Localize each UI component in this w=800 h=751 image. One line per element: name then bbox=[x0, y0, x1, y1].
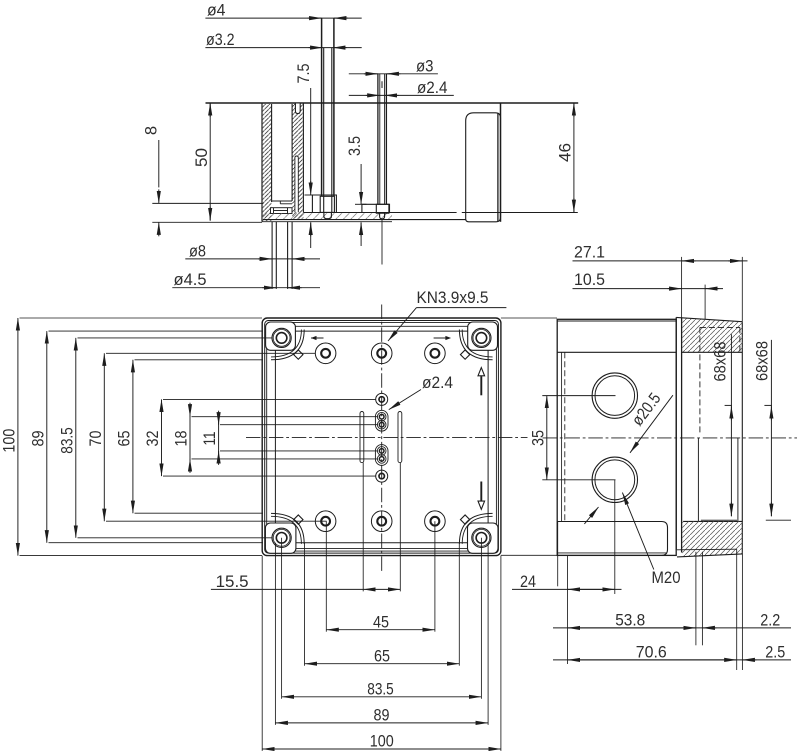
corner pocket BL bbox=[265, 523, 296, 553]
screw S2 shank inner bbox=[379, 74, 381, 205]
cover in section bbox=[466, 113, 501, 222]
dim 100 left bbox=[17, 318, 19, 556]
svg-text:53.8: 53.8 bbox=[615, 611, 645, 629]
pocket BL bulge bbox=[271, 513, 304, 544]
nut pocket bottom left bbox=[271, 208, 293, 214]
cover bottom wall top line bbox=[683, 520, 742, 522]
dim 68x68 second bbox=[764, 340, 791, 520]
base plate hatch bbox=[262, 213, 392, 219]
dim 83.5 bottom bbox=[282, 696, 482, 698]
dim 24 bbox=[512, 588, 622, 590]
cover right edge bbox=[741, 322, 743, 554]
svg-text:15.5: 15.5 bbox=[216, 573, 249, 591]
arrow glyph up right edge bbox=[478, 368, 485, 396]
svg-text:10.5: 10.5 bbox=[574, 271, 605, 289]
cover right inner line bbox=[497, 113, 499, 222]
corner screw TL bbox=[272, 328, 291, 347]
dim 70 left bbox=[103, 353, 105, 521]
dim 65 bottom bbox=[305, 663, 460, 665]
screw S2 center tick bbox=[381, 81, 383, 88]
top row hole A2 bbox=[371, 343, 392, 364]
lip outline inset2 top segment bbox=[272, 325, 492, 327]
dim 10.5 bbox=[573, 288, 724, 290]
dim line d3 bbox=[349, 73, 438, 75]
hidden wall line left dashed bbox=[564, 352, 566, 521]
top row hole A1 bbox=[315, 343, 336, 364]
svg-text:89: 89 bbox=[29, 431, 47, 447]
mold mark diamond TR bbox=[460, 350, 469, 359]
bottom band bbox=[557, 522, 668, 556]
lip outline inset1 bbox=[267, 322, 497, 551]
svg-text:ø2.4: ø2.4 bbox=[422, 374, 453, 392]
svg-text:7.5: 7.5 bbox=[295, 64, 313, 84]
svg-text:45: 45 bbox=[373, 613, 389, 631]
svg-text:70: 70 bbox=[87, 431, 105, 447]
dim 3.5 vertical bbox=[355, 164, 367, 246]
svg-text:ø2.4: ø2.4 bbox=[417, 79, 448, 97]
box body outline bbox=[557, 319, 676, 555]
top row hole A3 bbox=[425, 343, 446, 364]
svg-text:11: 11 bbox=[201, 432, 219, 446]
entry hole bottom inner bbox=[595, 460, 635, 500]
mold mark diamond BR bbox=[460, 515, 469, 524]
boss B2 under screw S2 bbox=[362, 204, 390, 212]
arrow glyph right on top edge bbox=[434, 336, 452, 340]
entry hole top outer bbox=[592, 373, 637, 418]
arrow glyph down right edge bbox=[478, 482, 485, 510]
dim 18 left bbox=[189, 403, 191, 473]
entry hole bottom outer bbox=[592, 457, 637, 502]
centerline horizontal bbox=[246, 436, 528, 438]
corner screw BL bbox=[272, 528, 291, 547]
svg-text:100: 100 bbox=[1, 429, 19, 453]
svg-text:2.5: 2.5 bbox=[765, 643, 785, 661]
cover top wall hatch bbox=[682, 318, 742, 352]
cover top wall bottom line bbox=[682, 351, 743, 353]
corner pocket BR bbox=[468, 523, 499, 553]
screw S1 head bbox=[320, 196, 334, 212]
dim 50 vertical bbox=[209, 103, 211, 221]
dim line d3.2 bbox=[205, 47, 361, 49]
dim 46 vertical bbox=[573, 103, 575, 212]
label M20 with leader bbox=[622, 493, 653, 570]
pocket TL bulge bbox=[271, 330, 304, 360]
ext verticals bottom right bbox=[558, 480, 743, 670]
hidden opening dashed top bbox=[700, 326, 740, 328]
svg-text:83.5: 83.5 bbox=[58, 427, 76, 454]
inner wall line left bbox=[561, 352, 563, 521]
bottom row hole B2 bbox=[371, 511, 392, 532]
label d20.5 with leader bbox=[630, 395, 673, 453]
mold mark diamond BL bbox=[294, 515, 303, 524]
bottom row hole B1 bbox=[315, 511, 336, 532]
dim line d2.4 bbox=[349, 94, 454, 96]
lip outline inset2 bottom segment bbox=[272, 548, 492, 550]
SIDE-VIEW bbox=[501, 244, 797, 671]
cover left wall thick pair bbox=[675, 317, 677, 550]
projection line top between views bbox=[501, 317, 557, 319]
svg-text:ø3: ø3 bbox=[416, 57, 434, 75]
svg-text:M20: M20 bbox=[652, 569, 681, 587]
SECTION-VIEW bbox=[143, 2, 579, 290]
screw S2 axis extension bbox=[381, 219, 383, 265]
svg-text:24: 24 bbox=[520, 573, 536, 591]
left wall outer line bbox=[261, 103, 263, 222]
dim 89 bottom bbox=[275, 722, 488, 724]
opening wall solid right below centerline bbox=[737, 438, 739, 522]
corner pocket TR bbox=[468, 322, 498, 350]
hidden opening dashed right bbox=[739, 327, 741, 351]
inner wall lines bbox=[291, 104, 293, 201]
base plate bottom lines bbox=[263, 219, 466, 221]
dim line d4.5 bbox=[172, 287, 320, 289]
svg-text:68x68: 68x68 bbox=[753, 341, 771, 381]
dim 65 left bbox=[132, 360, 134, 513]
hidden opening dashed left bbox=[699, 327, 701, 434]
ext lines left chain bbox=[20, 318, 378, 556]
screw channel slot in wall bbox=[295, 156, 298, 212]
leader to entry edge bbox=[584, 507, 598, 524]
twin hole pocket upper bbox=[375, 410, 388, 431]
svg-text:70.6: 70.6 bbox=[636, 643, 667, 661]
dim 11 left bbox=[218, 411, 220, 465]
dim 100 bottom bbox=[262, 748, 501, 750]
mounting boss tube below plate bbox=[271, 222, 273, 289]
svg-text:ø8: ø8 bbox=[189, 242, 206, 260]
bottom row hole B3 bbox=[425, 511, 446, 532]
dim 7.5 vertical bbox=[305, 88, 319, 248]
screw S2 tip bbox=[380, 213, 385, 219]
svg-text:8: 8 bbox=[143, 126, 161, 135]
twin holes upper bbox=[377, 412, 386, 421]
svg-text:ø4: ø4 bbox=[207, 2, 226, 20]
svg-text:18: 18 bbox=[173, 431, 191, 447]
base plate top line bbox=[303, 212, 456, 214]
pocket BR bulge bbox=[459, 513, 492, 544]
svg-text:68x68: 68x68 bbox=[711, 342, 729, 382]
opening wall solid left below centerline bbox=[697, 438, 699, 522]
arrow glyph left on top edge bbox=[311, 336, 324, 340]
slot right bbox=[398, 412, 402, 463]
svg-text:3.5: 3.5 bbox=[346, 136, 364, 156]
entry hole top inner bbox=[595, 376, 635, 416]
groove floor bbox=[272, 200, 292, 202]
dim 8 vertical bbox=[152, 140, 263, 236]
dim 53.8 / 2.2 bbox=[553, 627, 791, 629]
twin holes lower bbox=[377, 447, 386, 456]
dim line d4 bbox=[205, 17, 361, 19]
svg-text:KN3.9x9.5: KN3.9x9.5 bbox=[417, 289, 489, 307]
ext verticals top right bbox=[682, 257, 743, 322]
svg-text:100: 100 bbox=[370, 733, 394, 751]
svg-text:65: 65 bbox=[374, 647, 390, 665]
svg-text:ø3.2: ø3.2 bbox=[206, 31, 235, 49]
top band line bbox=[557, 351, 676, 353]
left wall inner line bbox=[271, 104, 273, 202]
dim 89 left bbox=[46, 331, 48, 543]
box outer outline bbox=[262, 318, 501, 556]
slot left bbox=[360, 412, 364, 463]
corner screw TR bbox=[472, 328, 491, 347]
bottom band inner line bbox=[557, 552, 667, 554]
corner screw BR bbox=[472, 528, 491, 547]
ext lines bottom chain bbox=[262, 463, 501, 751]
cover sloped top edge bbox=[676, 317, 742, 321]
dim 83.5 left bbox=[75, 338, 77, 538]
center hole C1 bbox=[376, 393, 388, 405]
corner pocket TL bbox=[266, 322, 296, 350]
cover bottom sliver lines bbox=[677, 548, 737, 551]
svg-text:35: 35 bbox=[529, 430, 547, 446]
cover face rect 89 bbox=[275, 331, 488, 543]
dim 35 bbox=[542, 396, 615, 480]
twin hole pocket lower bbox=[375, 445, 388, 466]
dim 68x68 first bbox=[701, 334, 737, 520]
FRONT-VIEW bbox=[1, 289, 528, 751]
box right end line bbox=[500, 103, 502, 222]
cover bottom wall hatch bbox=[682, 521, 742, 556]
screw S2 shank outer bbox=[377, 74, 379, 205]
svg-text:50: 50 bbox=[193, 148, 211, 167]
svg-text:2.2: 2.2 bbox=[760, 611, 780, 629]
center hole C2 bbox=[376, 470, 388, 482]
dim 27.1 bbox=[573, 260, 748, 262]
svg-text:65: 65 bbox=[116, 431, 134, 447]
svg-text:27.1: 27.1 bbox=[574, 244, 605, 262]
svg-text:46: 46 bbox=[557, 143, 575, 162]
screw S1 shank inner bbox=[323, 48, 325, 213]
centerline horizontal side bbox=[543, 437, 798, 439]
projection line bottom between views bbox=[501, 554, 557, 556]
box outer second outline bbox=[265, 321, 499, 554]
dim 45 bottom bbox=[326, 629, 435, 631]
boss B1 under screw S1 bbox=[312, 195, 336, 212]
screw S2 head bbox=[376, 204, 389, 213]
screw S1 shank outer bbox=[321, 18, 323, 196]
pocket TR bulge bbox=[459, 330, 492, 360]
dim 15.5 bottom bbox=[211, 588, 363, 590]
centerline vertical bbox=[381, 305, 383, 572]
mold mark diamond TL bbox=[294, 350, 303, 359]
inner wall hatch bbox=[292, 104, 303, 219]
svg-text:89: 89 bbox=[374, 707, 390, 725]
cover seam line bbox=[557, 320, 676, 322]
svg-text:ø4.5: ø4.5 bbox=[174, 271, 207, 289]
screw S1 tip bbox=[324, 212, 332, 218]
left wall hatch bbox=[263, 104, 272, 221]
svg-text:83.5: 83.5 bbox=[367, 680, 394, 698]
dim 32 left bbox=[161, 399, 163, 476]
svg-text:32: 32 bbox=[144, 431, 162, 447]
dim line d8 bbox=[185, 258, 320, 260]
seal slot at wall top bbox=[295, 104, 300, 114]
dim 70.6 / 2.5 bbox=[553, 659, 791, 661]
top mounting plate top edge bbox=[206, 102, 579, 104]
